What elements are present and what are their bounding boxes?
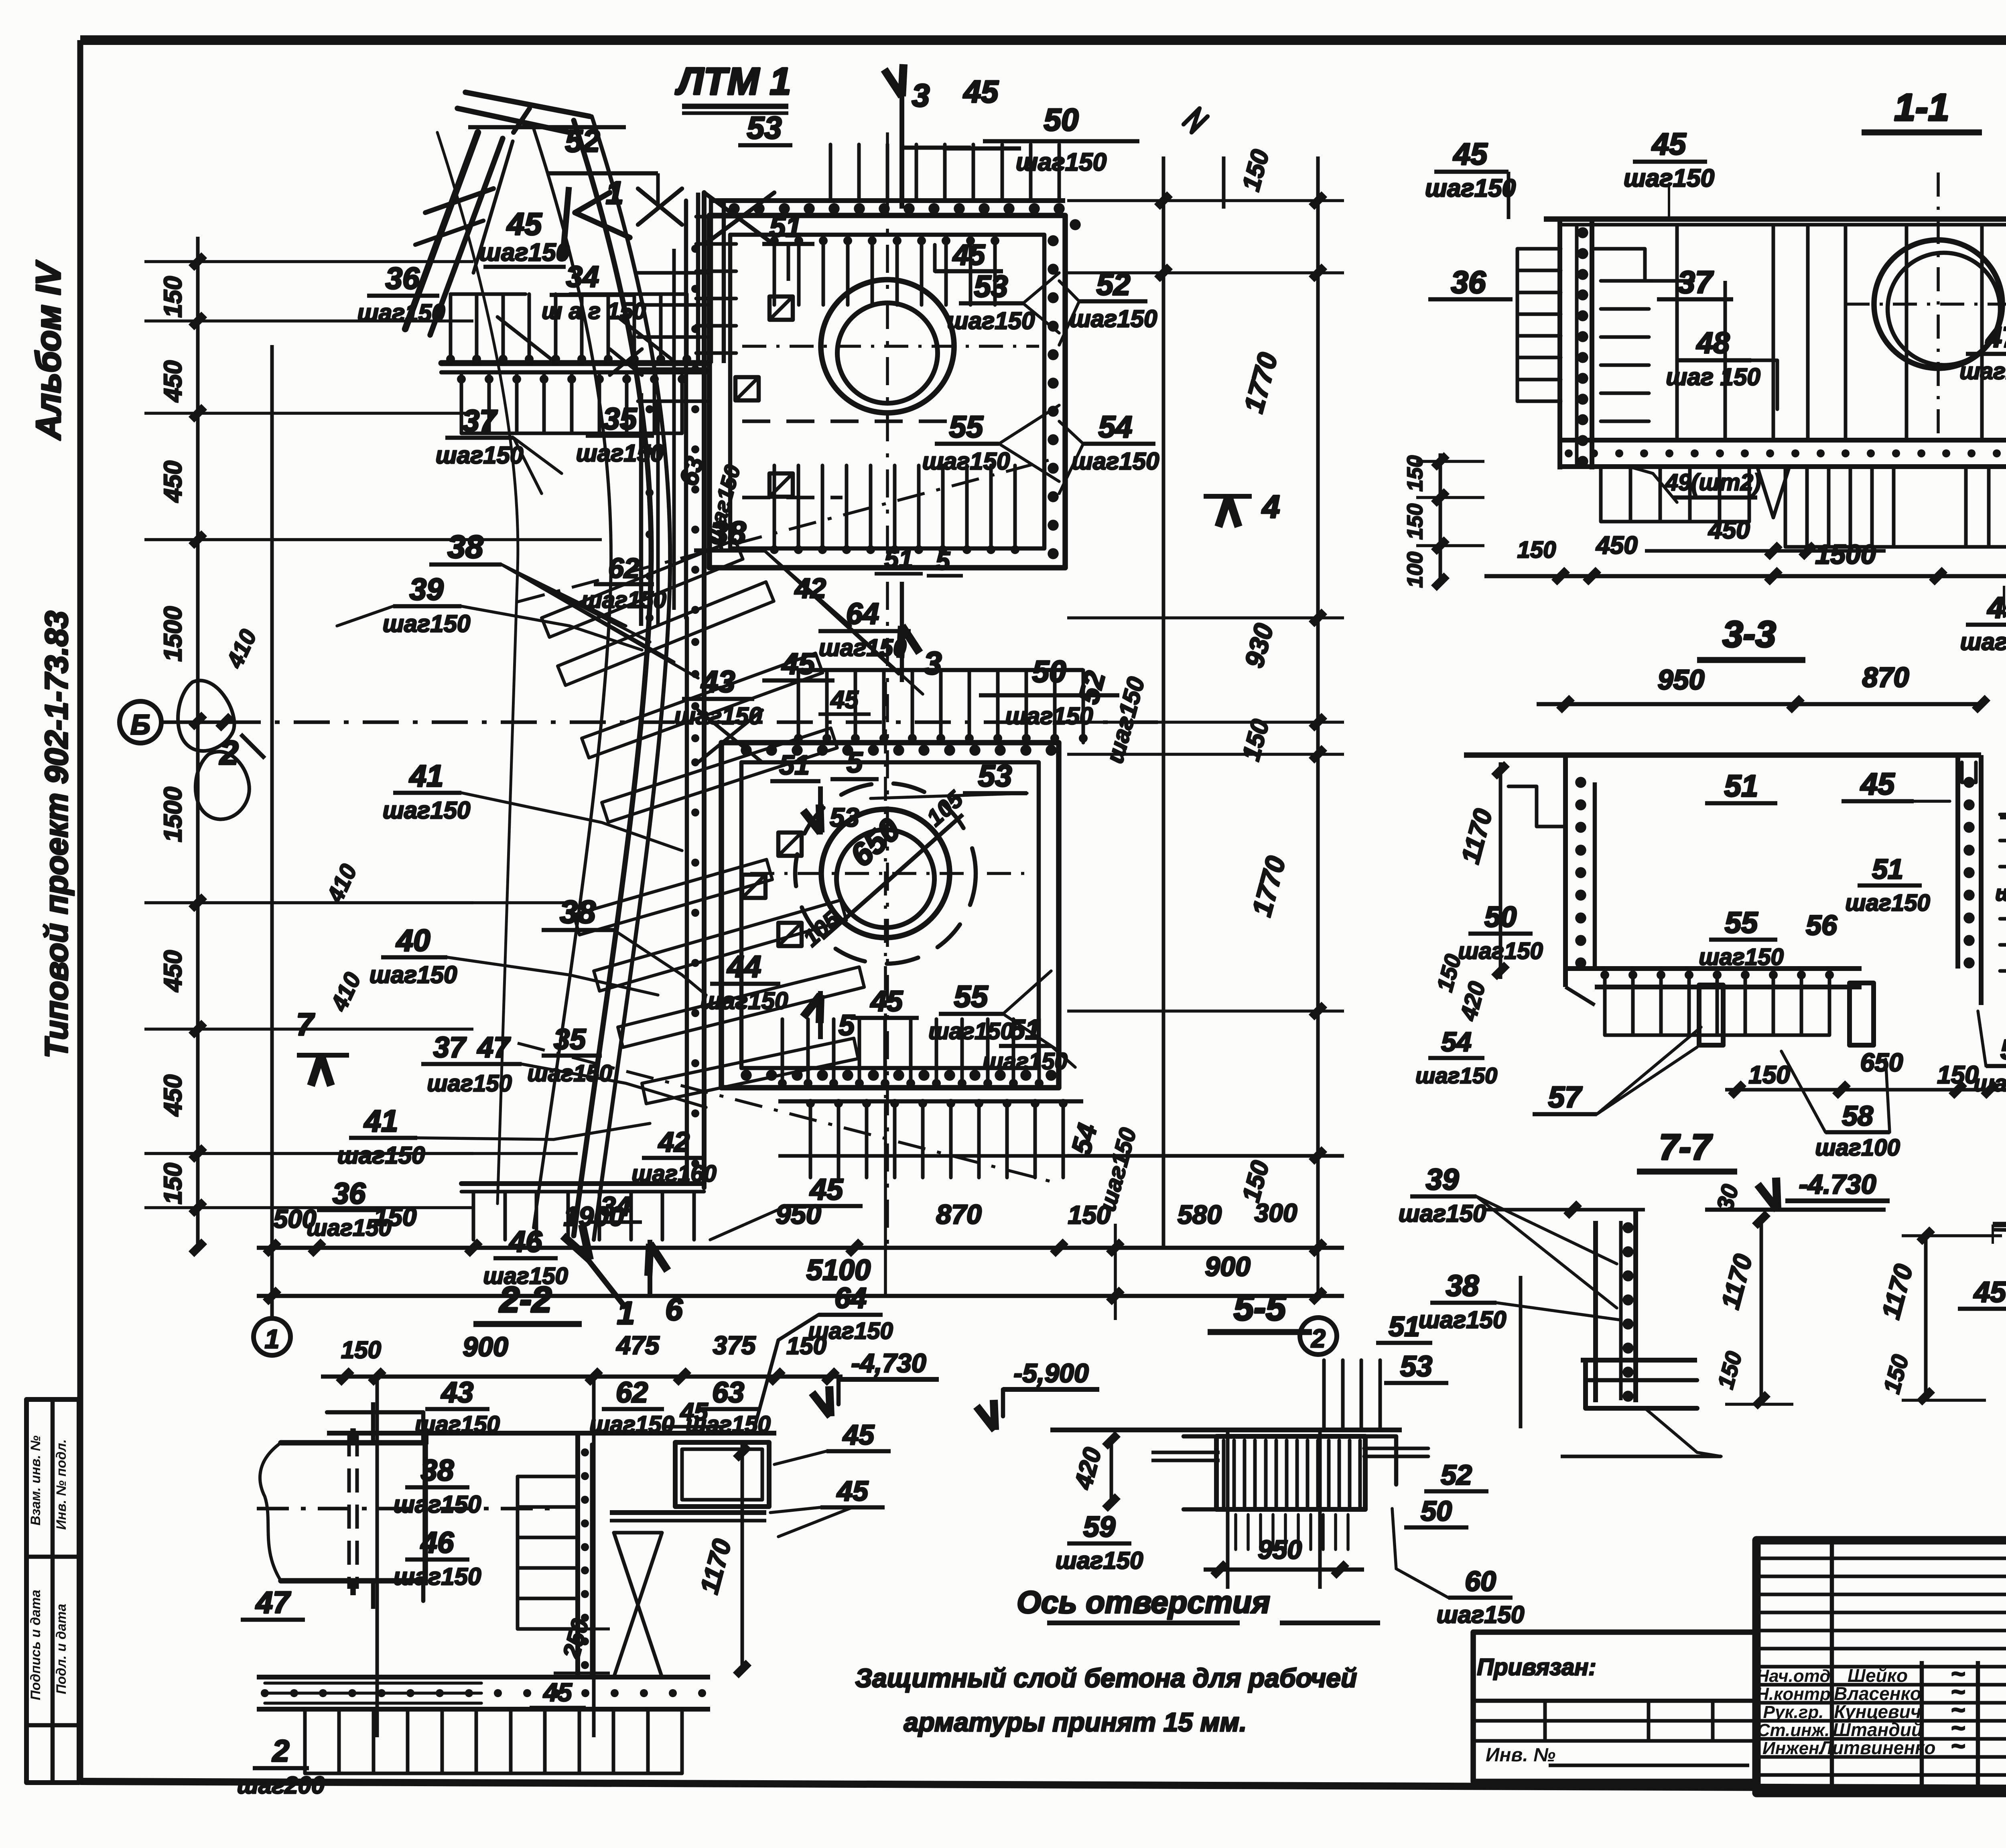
- svg-text:45: 45: [952, 239, 985, 271]
- svg-text:Рук.гр.: Рук.гр.: [1763, 1702, 1824, 1722]
- extra leader lines middle-left: [461, 606, 642, 650]
- svg-text:Б: Б: [130, 709, 150, 740]
- axis B circle: [120, 701, 161, 743]
- svg-text:2: 2: [272, 1734, 289, 1768]
- svg-text:475: 475: [616, 1331, 660, 1360]
- slanted rebar bundles middle: [542, 540, 743, 637]
- svg-text:150: 150: [341, 1336, 381, 1363]
- svg-text:100: 100: [1403, 552, 1427, 588]
- svg-text:50: 50: [1044, 102, 1079, 137]
- 1-1 left ladder comb: [1517, 249, 1561, 401]
- svg-text:51: 51: [770, 211, 802, 243]
- 3-3 combs bottom: [1605, 969, 1829, 1035]
- svg-text:59: 59: [1083, 1511, 1115, 1543]
- plan left wall double lines: [702, 193, 707, 626]
- svg-text:53: 53: [747, 110, 782, 145]
- svg-text:шаг150: шаг150: [922, 448, 1010, 475]
- svg-text:1500: 1500: [159, 606, 187, 662]
- 2-2 right opening cell: [675, 1442, 769, 1507]
- svg-text:~: ~: [1951, 1732, 1965, 1759]
- bottom dim chain of plan: [257, 1246, 1344, 1250]
- svg-text:шаг150: шаг150: [1425, 175, 1516, 202]
- 1-1 left wall: [1557, 219, 1562, 469]
- svg-text:45: 45: [1973, 1276, 2006, 1308]
- svg-text:54: 54: [1441, 1027, 1472, 1057]
- 1-1 small triangles bottom: [1757, 467, 1789, 518]
- upper-left slab with combs: [441, 360, 709, 366]
- svg-text:64: 64: [834, 1282, 867, 1314]
- circled 2 x2: [1300, 1318, 1337, 1355]
- squiggle break: [1184, 108, 1208, 132]
- svg-text:46: 46: [420, 1526, 454, 1559]
- 5-5 hatched slab: [1216, 1436, 1365, 1509]
- svg-text:450: 450: [1595, 532, 1637, 559]
- svg-text:45: 45: [506, 206, 542, 242]
- svg-text:шаг150: шаг150: [383, 610, 471, 637]
- 2-2 pipe: [281, 1443, 425, 1581]
- svg-text:шаг150: шаг150: [1005, 703, 1093, 729]
- svg-text:шаг150: шаг150: [427, 1070, 512, 1097]
- svg-text:450: 450: [159, 950, 187, 992]
- 1-1 dimension chain: [1484, 574, 2006, 579]
- svg-text:900: 900: [463, 1332, 508, 1362]
- svg-text:51: 51: [1872, 853, 1903, 885]
- svg-text:53: 53: [974, 270, 1008, 304]
- privyazan box: [1473, 1632, 1756, 1781]
- svg-text:1900: 1900: [563, 1201, 624, 1232]
- svg-text:62: 62: [616, 1377, 648, 1409]
- svg-text:арматуры принят 15 мм.: арматуры принят 15 мм.: [904, 1707, 1247, 1737]
- lower bottom comb: [782, 1019, 1039, 1087]
- svg-text:47: 47: [1985, 321, 2006, 353]
- svg-text:42: 42: [794, 573, 826, 604]
- svg-text:52: 52: [2000, 1034, 2006, 1065]
- svg-text:шаг150: шаг150: [1959, 358, 2006, 384]
- svg-text:63: 63: [712, 1377, 744, 1409]
- svg-text:шаг150: шаг150: [479, 239, 570, 266]
- svg-text:37: 37: [1678, 264, 1714, 300]
- oval blobs near axis B: [178, 680, 234, 751]
- svg-text:шаг150: шаг150: [700, 987, 788, 1014]
- 1-1 top slab: [1544, 216, 2006, 222]
- svg-text:650: 650: [1860, 1048, 1903, 1077]
- svg-text:55: 55: [954, 980, 989, 1014]
- svg-text:36: 36: [386, 262, 420, 296]
- svg-text:Инв. №: Инв. №: [1486, 1744, 1555, 1766]
- svg-text:950: 950: [1258, 1535, 1302, 1564]
- svg-text:шаг150: шаг150: [394, 1491, 481, 1518]
- 3-3 embedded plates: [1699, 985, 1723, 1045]
- svg-text:62: 62: [608, 552, 640, 584]
- svg-text:1-1: 1-1: [1894, 86, 1949, 129]
- 2-2 bottom slab: [257, 1675, 710, 1679]
- diagonal cross top-left of plan: [704, 193, 774, 245]
- svg-text:45: 45: [830, 686, 859, 714]
- svg-text:55: 55: [949, 410, 984, 444]
- svg-text:7: 7: [296, 1007, 315, 1042]
- 2-2 top dims: [321, 1375, 843, 1379]
- lower compartment outline: [721, 743, 1059, 1088]
- svg-text:38: 38: [421, 1454, 454, 1487]
- svg-text:580: 580: [1178, 1200, 1222, 1229]
- svg-text:1: 1: [265, 1324, 280, 1354]
- hatch wall near plan left: [696, 193, 700, 363]
- border frame: [80, 35, 2006, 45]
- svg-text:39: 39: [410, 573, 444, 607]
- 1-1 bottom slab: [1560, 438, 2006, 443]
- svg-text:43: 43: [441, 1377, 473, 1409]
- x-braces top-left: [638, 189, 682, 225]
- middle ladder between 3-3 and 4-4: [2000, 814, 2006, 971]
- centerlines upper circle: [886, 132, 889, 1248]
- svg-text:34: 34: [566, 260, 599, 293]
- svg-text:5100: 5100: [806, 1254, 871, 1286]
- 1-1 circle: [1874, 240, 2002, 368]
- dash-dot diagonal through plan: [518, 457, 1059, 602]
- comb below lower compartment: [810, 1101, 1063, 1178]
- svg-text:450: 450: [159, 1074, 187, 1117]
- svg-text:35: 35: [554, 1024, 586, 1056]
- svg-text:шаг200: шаг200: [237, 1772, 325, 1799]
- upper compartment outline: [709, 215, 1065, 568]
- svg-text:150: 150: [1748, 1061, 1790, 1089]
- svg-text:870: 870: [936, 1199, 982, 1230]
- svg-text:150: 150: [159, 276, 187, 317]
- 2-2 walls: [327, 1431, 776, 1436]
- right wall dots upper: [1048, 235, 1059, 246]
- svg-text:шаг100: шаг100: [1815, 1135, 1900, 1161]
- svg-text:39: 39: [1426, 1163, 1459, 1196]
- svg-text:Нач.отд: Нач.отд: [1756, 1666, 1830, 1686]
- svg-text:Инв. № подл.: Инв. № подл.: [54, 1439, 69, 1530]
- svg-text:Типовой проект 902-1-73.83: Типовой проект 902-1-73.83: [39, 611, 74, 1058]
- svg-text:шаг150: шаг150: [527, 1060, 612, 1086]
- section mark 7: [297, 1053, 349, 1058]
- svg-text:7-7: 7-7: [1659, 1127, 1713, 1168]
- svg-text:шаг150: шаг150: [589, 1411, 674, 1438]
- svg-text:38: 38: [1446, 1269, 1479, 1302]
- svg-text:57: 57: [1548, 1080, 1583, 1114]
- svg-text:48: 48: [1696, 326, 1730, 359]
- svg-text:38: 38: [448, 529, 483, 565]
- svg-text:5: 5: [847, 747, 863, 779]
- svg-text:54: 54: [1098, 410, 1133, 444]
- svg-text:5-5: 5-5: [1234, 1288, 1287, 1328]
- svg-text:53: 53: [1400, 1350, 1432, 1383]
- svg-text:47: 47: [477, 1032, 511, 1064]
- down-left band: [405, 132, 478, 329]
- lower labels 45 55 51 5: [818, 991, 823, 1039]
- svg-text:5: 5: [936, 546, 950, 575]
- svg-text:шаг150: шаг150: [1399, 1200, 1486, 1227]
- svg-text:55: 55: [1725, 906, 1758, 939]
- svg-text:Н.контр: Н.контр: [1756, 1684, 1831, 1704]
- big circle upper: [821, 280, 954, 413]
- svg-text:51: 51: [884, 544, 913, 573]
- section mark 4 arrows right: [1204, 494, 1252, 499]
- 1-1 combs below slab: [1785, 467, 1894, 547]
- left margin stamp column: [26, 1399, 79, 1783]
- lower compartment top comb: [798, 670, 1083, 743]
- svg-text:шаг150: шаг150: [357, 299, 445, 326]
- svg-text:2: 2: [1311, 1324, 1326, 1353]
- svg-text:шаг150: шаг150: [808, 1318, 893, 1344]
- svg-text:36: 36: [1451, 264, 1486, 300]
- svg-text:1500: 1500: [159, 787, 187, 842]
- svg-text:шаг150: шаг150: [1437, 1601, 1525, 1628]
- svg-text:2-2: 2-2: [499, 1280, 552, 1320]
- svg-text:40: 40: [396, 924, 430, 958]
- svg-text:шаг150: шаг150: [1072, 448, 1159, 475]
- svg-text:шаг150: шаг150: [1995, 880, 2006, 906]
- svg-text:шаг150: шаг150: [1419, 1306, 1507, 1333]
- lower small squares: [778, 833, 802, 856]
- left vertical dimension chain: [196, 237, 200, 1248]
- 5-5 top line: [1050, 1428, 1402, 1432]
- bottom-left slab of plan: [461, 1181, 704, 1186]
- svg-text:53: 53: [830, 802, 859, 832]
- fan lines lower right: [1003, 971, 1051, 1014]
- svg-text:450: 450: [1708, 516, 1750, 544]
- section mark 1 bottom: [582, 1252, 626, 1308]
- svg-text:шаг150: шаг150: [1415, 1063, 1497, 1088]
- svg-text:50: 50: [1421, 1495, 1452, 1527]
- svg-text:шаг150: шаг150: [928, 1018, 1013, 1044]
- svg-text:950: 950: [776, 1199, 821, 1230]
- svg-text:52: 52: [565, 123, 600, 158]
- 2-2 pipe flange: [327, 1412, 423, 1443]
- svg-text:150: 150: [1517, 537, 1556, 563]
- svg-text:шаг150: шаг150: [383, 797, 471, 824]
- svg-text:шаг150: шаг150: [370, 961, 457, 988]
- svg-text:шаг150: шаг150: [1070, 305, 1157, 332]
- svg-text:45: 45: [1860, 767, 1895, 801]
- svg-text:ш а г 150: ш а г 150: [542, 298, 646, 324]
- svg-text:450: 450: [159, 360, 187, 402]
- upper compartment top comb: [830, 144, 1059, 201]
- svg-text:5: 5: [839, 1009, 855, 1042]
- 1-1 inner steps left: [1592, 249, 1693, 281]
- svg-text:45: 45: [836, 1475, 869, 1507]
- svg-text:1: 1: [617, 1295, 635, 1331]
- svg-text:44: 44: [727, 950, 761, 984]
- title block outer: [1756, 1540, 2006, 1793]
- svg-text:-5,900: -5,900: [1013, 1358, 1088, 1388]
- axis 1 circle: [254, 1318, 290, 1355]
- vertical guides down from plan: [270, 1164, 274, 1320]
- svg-text:150: 150: [374, 1202, 417, 1231]
- dashed inner lines upper: [742, 420, 955, 423]
- 5-5 top comb: [1324, 1360, 1380, 1430]
- 3-3 body: [1464, 752, 1981, 758]
- svg-text:53: 53: [978, 759, 1012, 793]
- svg-text:150: 150: [159, 1163, 187, 1204]
- 3-3 top dims: [1537, 702, 1982, 707]
- svg-text:Защитный слой бетона для: Защитный слой бетона для рабочей: [855, 1663, 1357, 1693]
- svg-text:Подпись и дата: Подпись и дата: [28, 1590, 43, 1700]
- svg-text:шаг150: шаг150: [1974, 1070, 2006, 1097]
- 6-6 body: [1993, 1222, 2006, 1227]
- svg-text:150: 150: [1403, 504, 1427, 540]
- svg-text:3-3: 3-3: [1723, 614, 1776, 655]
- svg-text:36: 36: [333, 1177, 366, 1210]
- svg-text:шаг150: шаг150: [1699, 944, 1784, 970]
- svg-text:Привязан:: Привязан:: [1477, 1654, 1596, 1680]
- top line with mark: [468, 125, 626, 130]
- svg-text:45: 45: [1651, 127, 1687, 161]
- svg-text:шаг150: шаг150: [1845, 890, 1930, 916]
- svg-text:49(шт2): 49(шт2): [1665, 469, 1761, 496]
- svg-text:500: 500: [274, 1204, 317, 1233]
- svg-text:Ось отверстия: Ось отверстия: [1017, 1584, 1270, 1620]
- svg-text:47: 47: [255, 1586, 291, 1620]
- svg-text:37: 37: [433, 1032, 467, 1064]
- 2-2 cross brace: [614, 1533, 662, 1677]
- svg-text:41: 41: [409, 759, 444, 793]
- 3-3 right wall with hooks: [1955, 755, 1960, 969]
- svg-text:Литвиненко: Литвиненко: [1818, 1737, 1935, 1758]
- section mark 1 top: [562, 187, 569, 261]
- svg-text:45: 45: [870, 985, 903, 1017]
- svg-text:870: 870: [1862, 662, 1909, 693]
- small squares with diagonals: [770, 296, 793, 320]
- svg-text:150: 150: [1068, 1200, 1111, 1229]
- svg-text:шаг150: шаг150: [947, 307, 1035, 334]
- svg-text:шаг150: шаг150: [415, 1411, 500, 1438]
- svg-text:шаг 150: шаг 150: [1666, 364, 1760, 390]
- svg-text:45: 45: [1453, 137, 1488, 171]
- svg-text:Альбом IV: Альбом IV: [29, 260, 68, 441]
- 1-1 vertical form lines: [1772, 225, 1775, 440]
- svg-text:56: 56: [1806, 910, 1837, 941]
- svg-text:60: 60: [1465, 1566, 1496, 1597]
- upper compartment bottom comb: [774, 465, 1015, 546]
- svg-text:375: 375: [713, 1331, 756, 1360]
- section mark 6 bottom: [648, 1240, 652, 1296]
- svg-text:51: 51: [1389, 1311, 1420, 1342]
- svg-text:шаг150: шаг150: [1960, 628, 2006, 655]
- svg-text:35: 35: [603, 402, 638, 436]
- svg-text:4: 4: [1261, 489, 1280, 524]
- 1-1 sub dims 450: [1645, 549, 1886, 553]
- svg-text:-4,730: -4,730: [851, 1348, 926, 1378]
- svg-text:900: 900: [1205, 1251, 1251, 1282]
- big curved wall: [574, 120, 651, 1236]
- svg-text:37: 37: [463, 404, 498, 438]
- svg-text:950: 950: [1658, 664, 1705, 695]
- svg-text:52: 52: [1441, 1459, 1472, 1491]
- svg-text:300: 300: [1255, 1198, 1297, 1227]
- svg-text:58: 58: [1842, 1100, 1873, 1131]
- svg-text:51: 51: [1724, 769, 1758, 803]
- svg-text:450: 450: [159, 461, 187, 503]
- svg-text:шаг150: шаг150: [436, 442, 524, 469]
- svg-text:шаг150: шаг150: [337, 1142, 425, 1169]
- fan lines to right wall upper: [1023, 273, 1059, 303]
- svg-text:-4.730: -4.730: [1799, 1169, 1876, 1200]
- svg-text:1500: 1500: [1815, 539, 1876, 570]
- svg-text:ЛТМ 1: ЛТМ 1: [675, 60, 791, 103]
- svg-text:шаг150: шаг150: [581, 587, 666, 613]
- svg-text:Взам. инв. №: Взам. инв. №: [28, 1436, 43, 1526]
- 2-2 ladder right: [518, 1476, 578, 1629]
- svg-text:45: 45: [542, 1678, 573, 1707]
- curved wall bands left: [457, 108, 570, 132]
- svg-text:3: 3: [912, 77, 930, 113]
- svg-text:Подл. и дата: Подл. и дата: [54, 1604, 69, 1694]
- svg-text:Инжен.: Инжен.: [1762, 1738, 1824, 1758]
- svg-text:45: 45: [680, 1398, 709, 1426]
- 7-7 body: [1484, 1208, 1645, 1212]
- section mark 3 top: [899, 92, 904, 209]
- svg-text:45: 45: [842, 1419, 875, 1450]
- svg-text:45: 45: [963, 74, 999, 109]
- svg-text:Ст.инж.: Ст.инж.: [1757, 1720, 1830, 1740]
- svg-text:шаг150: шаг150: [1056, 1547, 1143, 1574]
- lower circle with 650: [821, 809, 950, 938]
- svg-text:41: 41: [363, 1104, 398, 1138]
- title block left grid: [1754, 1540, 1760, 1793]
- right side vertical dimension lines: [1162, 156, 1165, 1248]
- svg-text:шаг150: шаг150: [394, 1563, 481, 1590]
- fan lines from 38 labels: [501, 565, 626, 626]
